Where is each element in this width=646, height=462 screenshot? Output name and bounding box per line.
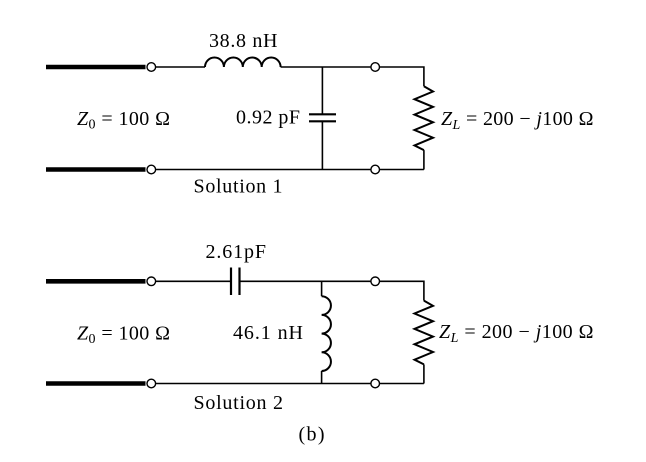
resistor ZL (circuit 2) bbox=[415, 301, 434, 365]
wire: shunt branch lower (circuit 1) bbox=[321, 121, 323, 169]
terminal node circle: bottom-left (circuit 2) bbox=[147, 379, 156, 388]
wire: top rail left segment (circuit 1) bbox=[151, 66, 205, 68]
terminal node circle: bottom-right (circuit 1) bbox=[371, 165, 380, 174]
capacitor C2 2.61 pF plates (series, circuit 2) bbox=[231, 268, 240, 296]
svg-text:2.61pF: 2.61pF bbox=[206, 241, 267, 263]
resistor ZL (circuit 1) bbox=[415, 86, 434, 150]
svg-text:ZL = 200 − j100 Ω: ZL = 200 − j100 Ω bbox=[441, 108, 594, 133]
wire: top rail right segment (circuit 1) bbox=[281, 67, 424, 86]
terminal node circle: top-right (circuit 2) bbox=[371, 277, 380, 286]
terminal node circle: top-left (circuit 1) bbox=[147, 63, 156, 72]
terminal node circle: bottom-right (circuit 2) bbox=[371, 379, 380, 388]
wire: bottom rail (circuit 1) bbox=[151, 169, 424, 171]
svg-text:Z0 = 100 Ω: Z0 = 100 Ω bbox=[77, 322, 170, 347]
inductor L1 38.8 nH (series, circuit 1) bbox=[205, 58, 281, 67]
svg-text:46.1 nH: 46.1 nH bbox=[233, 322, 303, 344]
svg-text:0.92 pF: 0.92 pF bbox=[236, 107, 300, 129]
wire: load to bottom rail (circuit 2) bbox=[423, 364, 425, 383]
terminal node circle: bottom-left (circuit 1) bbox=[147, 165, 156, 174]
capacitor C1 0.92 pF plates (shunt, circuit 1) bbox=[309, 114, 336, 121]
wire: shunt branch upper (circuit 1) bbox=[321, 67, 323, 114]
svg-text:Solution 1: Solution 1 bbox=[194, 175, 283, 197]
wire: shunt branch lower (circuit 2) bbox=[321, 371, 323, 384]
svg-text:(b): (b) bbox=[299, 423, 325, 445]
wire: shunt branch upper (circuit 2) bbox=[321, 281, 323, 296]
transmission line lower conductor (circuit 1) bbox=[46, 167, 146, 172]
terminal node circle: top-left (circuit 2) bbox=[147, 277, 156, 286]
wire: top rail right segment (circuit 2) bbox=[241, 281, 424, 300]
svg-text:38.8 nH: 38.8 nH bbox=[209, 30, 278, 52]
transmission line lower conductor (circuit 2) bbox=[46, 381, 146, 386]
svg-text:Solution 2: Solution 2 bbox=[194, 392, 284, 414]
transmission line upper conductor (circuit 1) bbox=[46, 65, 146, 70]
wire: load to bottom rail (circuit 1) bbox=[423, 150, 425, 169]
wire: top rail left segment (circuit 2) bbox=[151, 280, 230, 282]
transmission line upper conductor (circuit 2) bbox=[46, 279, 146, 284]
wire: bottom rail (circuit 2) bbox=[151, 383, 424, 385]
svg-text:Z0 = 100 Ω: Z0 = 100 Ω bbox=[77, 108, 170, 133]
svg-text:ZL = 200 − j100 Ω: ZL = 200 − j100 Ω bbox=[439, 321, 594, 346]
inductor L2 46.1 nH (shunt, circuit 2) bbox=[322, 296, 331, 371]
terminal node circle: top-right (circuit 1) bbox=[371, 63, 380, 72]
